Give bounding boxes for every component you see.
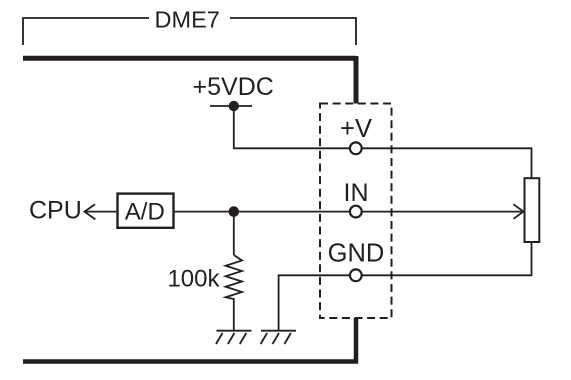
svg-text:CPU: CPU bbox=[29, 197, 82, 225]
potentiometer body bbox=[525, 178, 540, 242]
ground (chassis, right) bbox=[261, 331, 296, 344]
wire GND to potentiometer bottom bbox=[362, 243, 532, 275]
A/D converter box bbox=[118, 194, 174, 228]
wire junction to resistor bbox=[233, 212, 235, 255]
terminal GND circle bbox=[350, 269, 362, 281]
resistor 100k zigzag bbox=[226, 255, 242, 331]
wire GND terminal to chassis ground bbox=[279, 275, 349, 330]
junction node dot bbox=[229, 206, 240, 217]
wire +5VDC to +V terminal bbox=[234, 106, 349, 148]
DME7 enclosure bottom wall (thick) bbox=[23, 318, 356, 364]
terminal +V circle bbox=[350, 142, 362, 154]
wire IN to potentiometer wiper with arrow bbox=[362, 204, 524, 219]
DME7 enclosure top wall (thick) bbox=[23, 56, 356, 104]
svg-text:+5VDC: +5VDC bbox=[193, 73, 274, 101]
terminal IN circle bbox=[350, 206, 362, 218]
arrow into CPU bbox=[85, 204, 117, 219]
svg-text:100k: 100k bbox=[167, 265, 220, 292]
wire +V to potentiometer top bbox=[362, 148, 532, 177]
svg-text:A/D: A/D bbox=[125, 199, 165, 226]
ground (below resistor) bbox=[216, 331, 252, 344]
DME7 enclosure bracket bbox=[23, 18, 356, 45]
svg-text:DME7: DME7 bbox=[155, 6, 220, 32]
svg-text:IN: IN bbox=[344, 179, 369, 207]
connector (dashed box) bbox=[320, 104, 392, 319]
svg-text:GND: GND bbox=[328, 240, 385, 268]
+5VDC supply bar and node dot bbox=[210, 101, 252, 111]
svg-text:+V: +V bbox=[340, 115, 372, 143]
wire A/D to IN terminal bbox=[175, 211, 350, 213]
